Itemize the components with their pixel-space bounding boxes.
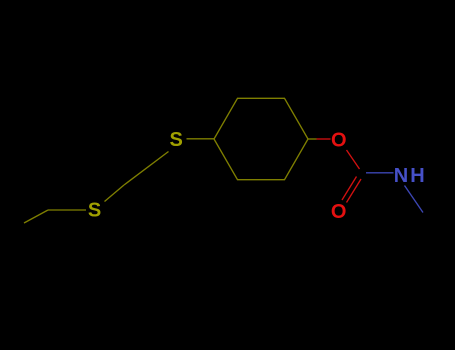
bond ring-O1 olive half [308,138,317,140]
ring (hexagon) [214,98,308,179]
svg-text:S: S [170,129,183,151]
bond CH3-CH2 (ethyl tail) [24,210,48,223]
bond O1-C carbonyl [347,150,360,169]
svg-text:S: S [88,200,101,222]
bond S2-ring [187,138,215,140]
svg-text:N: N [394,165,408,187]
svg-text:O: O [331,130,347,152]
bond S1-C2 [105,185,125,202]
carbonyl C=O double bond line 1 [342,177,357,201]
svg-text:O: O [331,201,347,223]
bond CH2-S1 [48,209,86,211]
bond N-CH3 [405,186,424,213]
svg-text:H: H [410,165,424,187]
bond C2-C1 and C1-S2 (nearly collinear) [124,152,169,186]
carbonyl C=O double bond line 2 [347,179,362,203]
bond C-N [366,172,394,174]
bond ring-O1 red half [317,138,331,140]
